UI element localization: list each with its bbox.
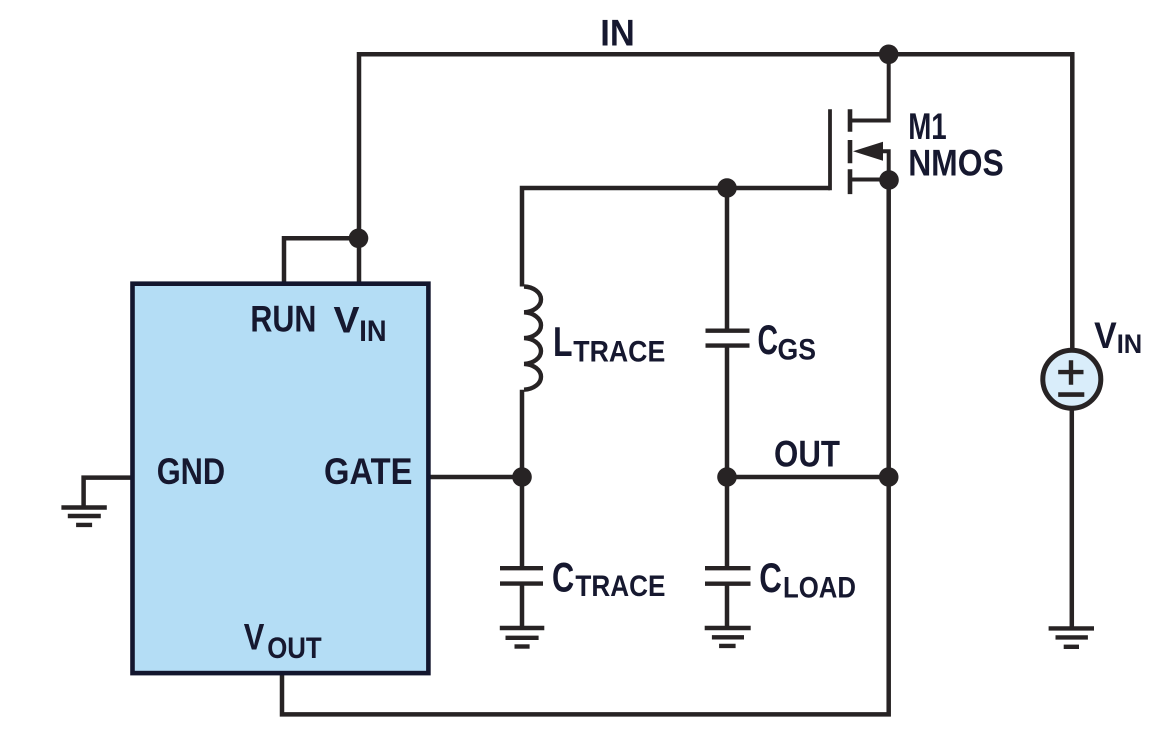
svg-text:C: C — [552, 554, 574, 601]
node GATE/LTRACE junction — [512, 467, 532, 487]
voltage source VIN — [1043, 350, 1101, 408]
svg-text:OUT: OUT — [267, 632, 322, 665]
ground (C_TRACE) — [500, 628, 545, 647]
wire OUT rail — [727, 475, 889, 480]
svg-text:L: L — [553, 318, 573, 365]
svg-text:LOAD: LOAD — [783, 572, 856, 605]
channel dashes — [848, 109, 853, 194]
body terminal — [880, 151, 889, 179]
ground (C_LOAD) — [705, 628, 751, 646]
svg-text:GS: GS — [778, 334, 817, 367]
wire IN top rail — [359, 54, 1072, 348]
wire GATE rail to MOSFET gate — [522, 188, 830, 287]
node gate/CGS junction — [717, 178, 737, 198]
capacitor C_GS plates — [706, 331, 750, 346]
svg-text:V: V — [244, 617, 265, 658]
minus sign — [1058, 392, 1084, 397]
svg-text:NMOS: NMOS — [908, 142, 1004, 183]
IC regulator block — [133, 284, 429, 673]
svg-text:GND: GND — [157, 451, 226, 492]
capacitor C_LOAD plates — [705, 568, 751, 584]
svg-text:M1: M1 — [908, 106, 947, 147]
drain bar — [850, 54, 889, 120]
wire GATE pin — [428, 475, 522, 480]
node IN junction — [879, 45, 899, 65]
svg-text:IN: IN — [359, 315, 386, 348]
wire C_GS top lead — [725, 188, 730, 331]
inductor L_TRACE — [524, 287, 541, 390]
plus sign — [1058, 360, 1083, 385]
node M1 source junction — [879, 170, 899, 190]
capacitor C_TRACE plates — [500, 568, 543, 583]
svg-text:GATE: GATE — [324, 451, 413, 492]
body arrow of M1 — [853, 142, 883, 161]
svg-text:C: C — [758, 316, 779, 363]
svg-text:TRACE: TRACE — [573, 335, 665, 368]
node RUN/VIN junction — [349, 229, 369, 249]
wire C_LOAD leads — [725, 477, 730, 628]
transistor M1 NMOS — [830, 54, 889, 194]
wire M1 source to bottom rail to VOUT — [282, 180, 889, 714]
svg-text:V: V — [334, 300, 360, 341]
svg-text:V: V — [1094, 315, 1117, 356]
wire RUN/VIN link — [284, 238, 359, 286]
svg-text:RUN: RUN — [250, 299, 316, 340]
svg-text:TRACE: TRACE — [575, 570, 665, 603]
wire GND pin — [84, 478, 132, 506]
svg-text:C: C — [759, 554, 782, 601]
wire L_TRACE bottom lead — [520, 390, 525, 477]
gate line — [828, 109, 832, 190]
node OUT/M1 junction — [879, 467, 899, 487]
svg-text:IN: IN — [1117, 329, 1143, 359]
ground (VIN source) — [1049, 628, 1094, 646]
ground (GND pin) — [61, 508, 106, 525]
wire C_GS bottom lead — [725, 346, 730, 477]
svg-text:IN: IN — [600, 12, 635, 53]
source bar — [850, 178, 889, 182]
svg-text:OUT: OUT — [774, 434, 840, 475]
wire C_TRACE leads — [520, 477, 525, 628]
node OUT/CLOAD junction — [717, 467, 737, 487]
wire VIN source bottom lead — [1070, 409, 1075, 628]
